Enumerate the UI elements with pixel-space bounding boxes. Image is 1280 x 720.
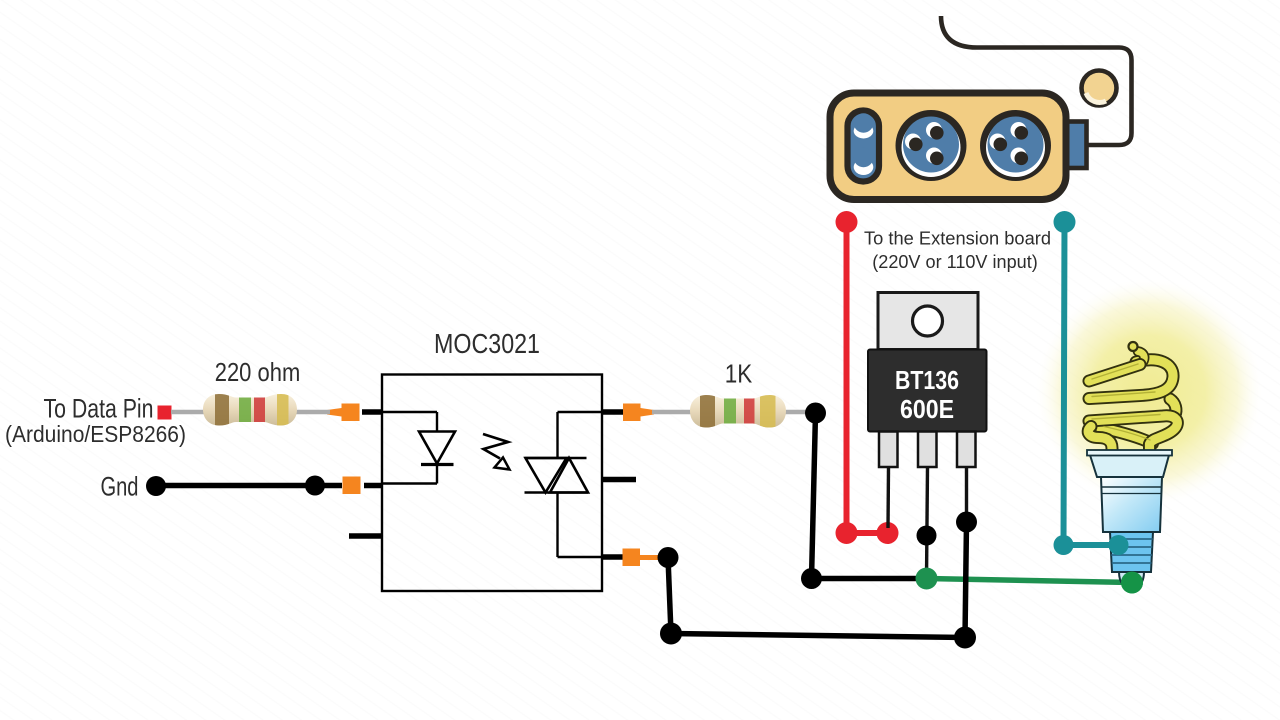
LED diode symbol [419,432,455,465]
wire Gnd [156,483,342,489]
node bottom left [660,623,682,645]
MOC pin1 stub [362,409,382,415]
MOC3021 internal photo-triac rails [558,412,603,557]
node at corner below 1K [801,568,822,589]
label: To the Extension board [864,229,1051,273]
BT136 pin 1 leg [879,432,898,468]
resistor R1 220 ohm [171,390,330,430]
resistor R2 1K [652,390,812,432]
socket 2 [980,110,1051,181]
label Gnd [101,472,139,502]
label To Data Pin [44,394,154,424]
triac BT136 body [868,350,987,432]
wire BT136 pin1 to red node [886,467,890,528]
node MOC pin4 [658,547,679,568]
svg-text:To the Extension board: To the Extension board [864,229,1051,249]
label (Arduino/ESP8266) [5,421,186,447]
cord plug circle [1082,71,1117,106]
node Gnd right [305,476,325,496]
label 220 ohm [215,357,301,387]
svg-text:Gnd: Gnd [101,472,139,502]
extension board switch [848,111,880,182]
label 1K [725,359,753,389]
extension board body [830,93,1066,200]
node Gnd left [146,476,166,496]
wire red phase from extension board [847,222,888,533]
svg-text:MOC3021: MOC3021 [434,328,540,359]
wire BT136 pin3 down [965,467,968,522]
svg-text:(220V or 110V input): (220V or 110V input) [872,252,1038,272]
node teal at bulb screw (redraw on top) [1109,535,1129,555]
node bottom right [954,627,976,649]
MOC pin4 connector [623,549,661,567]
wire from 1K to BT136 MT2 branch [812,413,927,579]
node teal at bulb [1109,535,1129,555]
label MOC3021 [434,328,540,359]
BT136 pin 2 leg [918,432,937,468]
wire teal neutral from extension board [1064,222,1119,545]
wire green to bulb [927,579,1133,583]
BT136 pin 3 leg [957,432,976,468]
light emission arrow [483,434,510,470]
node green at bulb [1121,572,1143,594]
node gate junction [956,512,977,533]
photo-triac symbol [525,458,589,493]
CFL bulb spiral [1088,342,1177,453]
node teal top [1054,211,1076,233]
MOC pin6 stub [602,409,623,415]
socket 1 [896,110,967,181]
wire MOC pin4 to BT136 gate [668,522,967,638]
node red top [836,211,858,233]
MOC pin4 stub [602,554,623,560]
optocoupler MOC3021 box [382,375,602,592]
MOC pin3 stub [349,533,382,539]
node on BT136 pin2 [917,526,937,546]
svg-text:To Data Pin: To Data Pin [44,394,154,424]
svg-text:1K: 1K [725,359,753,389]
MOC pin2 connector [343,477,361,495]
node green junction [916,568,938,590]
triac BT136 tab [878,293,978,350]
node teal corner [1054,535,1074,555]
extension board plug tab [1064,122,1087,169]
node at 1K right [805,403,826,424]
data pin terminal red square [158,406,172,420]
extension board cord [941,16,1132,145]
MOC pin6 connector [623,404,654,422]
MOC pin5 stub [602,477,636,483]
node red corner [836,522,858,544]
bulb glow [1036,279,1262,505]
wire BT136 pin2 down to green node [927,467,928,578]
MOC pin2 stub [364,483,382,489]
svg-text:(Arduino/ESP8266): (Arduino/ESP8266) [5,421,186,447]
node green at bulb tip (redraw on top) [1121,572,1143,594]
MOC pin1 connector [327,404,360,422]
MOC3021 internal LED circuit [382,412,437,484]
svg-text:BT136: BT136 [895,365,959,395]
svg-text:600E: 600E [900,394,954,424]
CFL bulb base [1087,450,1172,590]
svg-text:220 ohm: 220 ohm [215,357,301,387]
node red at BT136 MT1 [877,522,899,544]
